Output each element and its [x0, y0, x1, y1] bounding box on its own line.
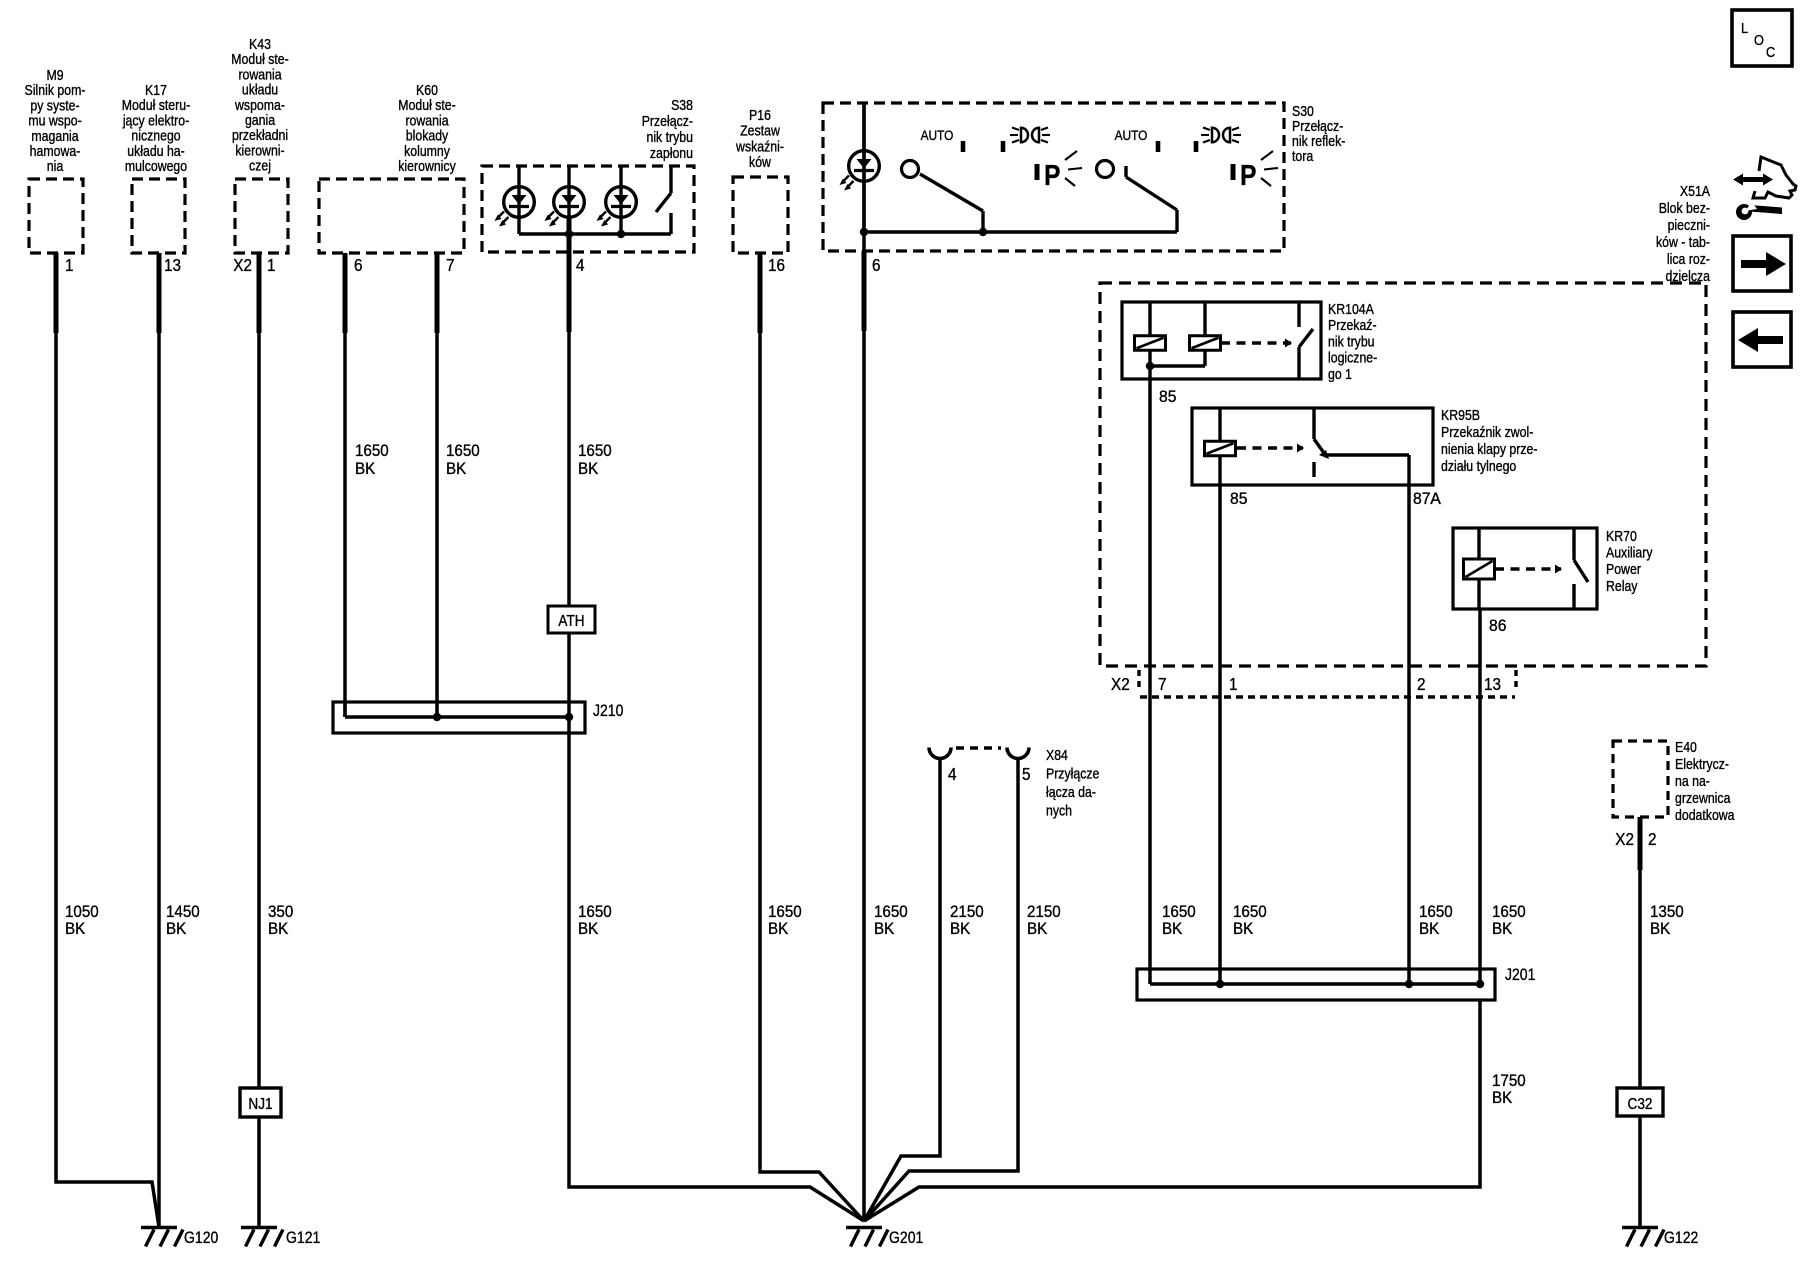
svg-text:1650: 1650: [578, 903, 612, 921]
svg-text:Silnik pom-: Silnik pom-: [25, 82, 86, 98]
svg-text:C: C: [1766, 43, 1775, 60]
svg-text:1450: 1450: [166, 903, 200, 921]
svg-text:C32: C32: [1628, 1096, 1653, 1113]
svg-text:G121: G121: [286, 1229, 320, 1247]
svg-text:Moduł ste-: Moduł ste-: [398, 97, 455, 113]
svg-text:wspoma-: wspoma-: [234, 97, 285, 113]
svg-text:4: 4: [576, 255, 585, 275]
svg-text:łącza da-: łącza da-: [1046, 784, 1096, 800]
svg-text:BK: BK: [446, 460, 467, 478]
svg-text:1750: 1750: [1492, 1072, 1526, 1090]
svg-text:BK: BK: [578, 920, 599, 938]
svg-text:1650: 1650: [768, 903, 802, 921]
svg-text:BK: BK: [166, 920, 187, 938]
svg-text:BK: BK: [578, 460, 599, 478]
svg-text:1650: 1650: [1492, 903, 1526, 921]
svg-text:1650: 1650: [578, 442, 612, 460]
svg-text:J201: J201: [1505, 966, 1535, 984]
svg-text:85: 85: [1159, 388, 1176, 406]
svg-text:4: 4: [948, 764, 957, 784]
svg-text:nik reflek-: nik reflek-: [1292, 133, 1345, 149]
svg-text:2: 2: [1417, 674, 1426, 694]
svg-text:gania: gania: [245, 112, 276, 128]
svg-text:Moduł ste-: Moduł ste-: [231, 51, 288, 67]
svg-text:Przełącz-: Przełącz-: [1292, 118, 1343, 134]
svg-text:nicznego: nicznego: [131, 128, 180, 144]
svg-text:wskaźni-: wskaźni-: [735, 138, 784, 154]
svg-text:układu: układu: [242, 82, 278, 98]
svg-text:85: 85: [1230, 490, 1247, 508]
svg-text:py syste-: py syste-: [30, 97, 79, 113]
svg-text:Zestaw: Zestaw: [740, 123, 780, 139]
svg-text:nik trybu: nik trybu: [646, 129, 693, 145]
svg-text:350: 350: [268, 903, 293, 921]
svg-text:zapłonu: zapłonu: [650, 145, 693, 161]
svg-text:16: 16: [768, 255, 785, 275]
svg-text:AUTO: AUTO: [921, 127, 954, 143]
svg-text:G201: G201: [889, 1229, 923, 1247]
svg-text:dodatkowa: dodatkowa: [1675, 807, 1735, 823]
svg-text:nia: nia: [47, 158, 64, 174]
svg-text:13: 13: [1484, 674, 1501, 694]
svg-text:1050: 1050: [65, 903, 99, 921]
svg-text:Przekaźnik zwol-: Przekaźnik zwol-: [1441, 424, 1533, 440]
svg-text:Moduł steru-: Moduł steru-: [122, 97, 190, 113]
svg-text:G120: G120: [184, 1229, 218, 1247]
svg-text:7: 7: [1158, 674, 1167, 694]
svg-text:KR104A: KR104A: [1328, 301, 1374, 317]
svg-text:BK: BK: [1650, 920, 1671, 938]
svg-text:1650: 1650: [1162, 903, 1196, 921]
svg-text:grzewnica: grzewnica: [1675, 790, 1731, 806]
svg-text:blokady: blokady: [406, 128, 449, 144]
svg-text:tora: tora: [1292, 148, 1314, 164]
svg-text:1: 1: [1229, 674, 1238, 694]
svg-text:13: 13: [164, 255, 181, 275]
svg-text:P: P: [1044, 159, 1060, 191]
svg-text:ATH: ATH: [558, 613, 584, 630]
svg-text:E40: E40: [1675, 739, 1697, 755]
svg-text:Przyłącze: Przyłącze: [1046, 766, 1099, 782]
svg-text:2: 2: [1648, 829, 1657, 849]
svg-text:6: 6: [354, 255, 363, 275]
svg-text:rowania: rowania: [405, 112, 449, 128]
svg-text:BK: BK: [950, 920, 971, 938]
svg-text:7: 7: [446, 255, 455, 275]
svg-text:BK: BK: [268, 920, 289, 938]
svg-text:NJ1: NJ1: [248, 1096, 272, 1113]
svg-text:ków: ków: [749, 154, 771, 170]
svg-text:ków - tab-: ków - tab-: [1656, 234, 1710, 250]
svg-text:BK: BK: [768, 920, 789, 938]
svg-text:Relay: Relay: [1606, 578, 1638, 594]
svg-text:czej: czej: [249, 158, 271, 174]
svg-text:Przełącz-: Przełącz-: [642, 113, 693, 129]
svg-text:BK: BK: [1492, 920, 1513, 938]
svg-text:1350: 1350: [1650, 903, 1684, 921]
svg-text:1: 1: [65, 255, 74, 275]
svg-text:1: 1: [267, 255, 276, 275]
svg-text:pieczni-: pieczni-: [1668, 217, 1710, 233]
svg-text:mu wspo-: mu wspo-: [28, 113, 81, 129]
svg-text:BK: BK: [65, 920, 86, 938]
svg-text:nienia klapy prze-: nienia klapy prze-: [1441, 441, 1537, 457]
svg-text:BK: BK: [1492, 1089, 1513, 1107]
svg-text:BK: BK: [874, 920, 895, 938]
svg-text:hamowa-: hamowa-: [30, 143, 81, 159]
svg-text:1650: 1650: [1233, 903, 1267, 921]
svg-text:K17: K17: [145, 82, 167, 98]
svg-text:G122: G122: [1664, 1229, 1698, 1247]
svg-text:BK: BK: [355, 460, 376, 478]
svg-text:1650: 1650: [446, 442, 480, 460]
svg-text:kierownicy: kierownicy: [398, 158, 456, 174]
svg-text:L: L: [1741, 19, 1748, 36]
svg-text:6: 6: [872, 255, 881, 275]
svg-text:BK: BK: [1162, 920, 1183, 938]
svg-text:5: 5: [1022, 764, 1031, 784]
svg-text:87A: 87A: [1413, 490, 1441, 508]
svg-text:X2: X2: [233, 255, 252, 275]
svg-text:X84: X84: [1046, 747, 1068, 763]
svg-text:logiczne-: logiczne-: [1328, 350, 1377, 366]
svg-text:nych: nych: [1046, 803, 1072, 819]
svg-text:BK: BK: [1027, 920, 1048, 938]
svg-text:kolumny: kolumny: [404, 143, 450, 159]
svg-text:BK: BK: [1419, 920, 1440, 938]
svg-text:S30: S30: [1292, 103, 1314, 119]
svg-text:P16: P16: [749, 107, 771, 123]
svg-text:działu tylnego: działu tylnego: [1441, 458, 1516, 474]
svg-text:O: O: [1754, 31, 1764, 48]
svg-text:Przekaź-: Przekaź-: [1328, 317, 1377, 333]
svg-text:Auxiliary: Auxiliary: [1606, 545, 1653, 561]
svg-text:lica roz-: lica roz-: [1667, 251, 1710, 267]
svg-text:1650: 1650: [874, 903, 908, 921]
svg-text:go 1: go 1: [1328, 366, 1352, 382]
svg-text:AUTO: AUTO: [1115, 127, 1148, 143]
svg-text:przekładni: przekładni: [232, 127, 288, 143]
svg-text:układu ha-: układu ha-: [127, 143, 184, 159]
svg-text:mulcowego: mulcowego: [125, 158, 187, 174]
svg-text:magania: magania: [31, 128, 79, 144]
svg-text:nik trybu: nik trybu: [1328, 333, 1375, 349]
svg-text:rowania: rowania: [238, 66, 282, 82]
svg-text:kierowni-: kierowni-: [235, 142, 284, 158]
svg-text:S38: S38: [671, 97, 693, 113]
svg-text:P: P: [1240, 159, 1256, 191]
svg-text:K43: K43: [249, 36, 271, 52]
svg-text:Power: Power: [1606, 561, 1641, 577]
svg-text:J210: J210: [593, 702, 623, 720]
svg-text:86: 86: [1489, 617, 1506, 635]
svg-text:Blok bez-: Blok bez-: [1659, 200, 1710, 216]
svg-text:2150: 2150: [1027, 903, 1061, 921]
svg-text:X2: X2: [1615, 829, 1634, 849]
svg-text:M9: M9: [46, 67, 63, 83]
svg-text:X51A: X51A: [1680, 183, 1710, 199]
svg-text:2150: 2150: [950, 903, 984, 921]
svg-text:K60: K60: [416, 82, 438, 98]
svg-text:X2: X2: [1111, 674, 1130, 694]
svg-text:KR95B: KR95B: [1441, 407, 1480, 423]
svg-text:1650: 1650: [1419, 903, 1453, 921]
svg-text:KR70: KR70: [1606, 528, 1637, 544]
svg-text:BK: BK: [1233, 920, 1254, 938]
svg-text:na na-: na na-: [1675, 773, 1710, 789]
svg-text:1650: 1650: [355, 442, 389, 460]
svg-text:Elektrycz-: Elektrycz-: [1675, 756, 1729, 772]
svg-text:jący elektro-: jący elektro-: [122, 112, 189, 128]
